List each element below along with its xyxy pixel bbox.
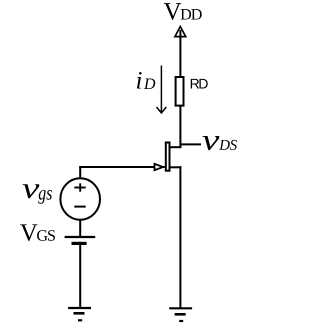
wire drain node to vDS label	[179, 143, 201, 145]
plus sign in vgs source	[74, 183, 85, 191]
wire VDD arrow to resistor RD	[179, 30, 181, 77]
resistor RD	[176, 77, 184, 106]
label RD	[191, 79, 208, 89]
wire battery to ground (left)	[79, 245, 81, 308]
current label iD	[137, 72, 155, 89]
wire source to ground (right)	[179, 166, 181, 308]
wire resistor to drain node	[179, 106, 181, 149]
label vgs	[23, 184, 52, 204]
minus sign in vgs source	[74, 206, 85, 208]
node VDD label	[164, 3, 202, 20]
transistor Q1 drain line	[170, 146, 182, 148]
VDD supply arrow	[175, 27, 186, 37]
label VGS	[20, 224, 55, 241]
ground (right)	[169, 308, 192, 321]
current arrow iD	[157, 66, 167, 114]
wire vgs source to battery VGS	[79, 220, 81, 237]
transistor Q1 channel body	[166, 143, 170, 171]
ground (left)	[68, 308, 91, 320]
battery VGS minus plate	[72, 242, 87, 245]
battery VGS plus plate	[65, 236, 96, 238]
transistor Q1 source line	[170, 166, 182, 168]
wire gate to source vgs (horizontal)	[79, 166, 155, 168]
transistor Q1 gate arrow	[161, 166, 165, 168]
label vDS	[203, 136, 237, 150]
source vgs circle	[60, 178, 100, 219]
wire bend down to vgs source	[79, 166, 81, 178]
